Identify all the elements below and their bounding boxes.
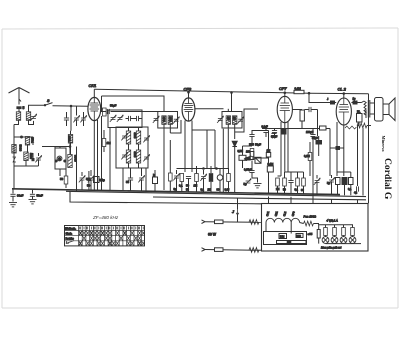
trimmer band3 [35, 155, 41, 162]
top rail anode supply [94, 89, 309, 93]
dot osc right [64, 160, 66, 162]
electrolytic dark b [282, 130, 287, 135]
resistor 0.1M horizontal top [320, 126, 327, 130]
svg-text:CL 2: CL 2 [338, 87, 347, 92]
capacitor 0.1 input [64, 118, 69, 120]
svg-text:5µ: 5µ [244, 182, 247, 186]
svg-text:Wellenb.: Wellenb. [65, 226, 76, 230]
oscillator coil frame F2 [116, 127, 148, 168]
svg-text:1000: 1000 [162, 117, 165, 123]
resistor 0.5M det [239, 155, 246, 160]
row resistor right [227, 174, 231, 182]
svg-text:100: 100 [233, 117, 236, 122]
diode detector [232, 141, 237, 146]
wire AVC horizontal [177, 168, 229, 170]
capacitor 50nF to ground [32, 189, 34, 193]
IF transformer 2 frame [222, 112, 242, 129]
wire diode down [234, 147, 236, 193]
svg-text:Drehko: Drehko [66, 237, 75, 241]
table grid [65, 226, 145, 246]
wire secondary top to switch wire [29, 105, 46, 112]
dot osc left [55, 160, 57, 162]
svg-text:RL: RL [357, 110, 361, 114]
IF2 coil primary 100 [226, 116, 230, 125]
capacitor blob left of CL2 [331, 101, 335, 104]
capacitor coupling to CL2 [309, 107, 311, 112]
wire det chain top [243, 145, 253, 147]
wire out row top y172 [337, 171, 351, 173]
svg-text:Cordial G: Cordial G [382, 158, 393, 200]
svg-text:blau grün gelb rot: blau grün gelb rot [321, 246, 341, 250]
resistor 0.1M right col [308, 153, 312, 161]
capacitor F1 100b [137, 116, 139, 121]
ground det [251, 173, 253, 179]
svg-text:5µ: 5µ [327, 181, 330, 185]
wire band2 horizontal [14, 136, 28, 138]
svg-text:100: 100 [246, 151, 251, 154]
wire CF3 top to rail [188, 92, 190, 98]
table X marks [79, 227, 145, 246]
junction dot antenna wire [70, 105, 72, 107]
coil osc lower right 5000 [136, 150, 140, 163]
svg-text:0,5M: 0,5M [238, 150, 243, 153]
resistor 0.1M af2 [267, 166, 273, 172]
svg-text:CK1: CK1 [89, 83, 97, 88]
wire coil to left rail [14, 120, 19, 124]
svg-text:50: 50 [126, 180, 130, 184]
wire CF7 grid from IF2 [235, 109, 258, 132]
svg-text:50: 50 [60, 177, 64, 181]
wire CK1 anode right [101, 111, 106, 113]
row resistor d [296, 178, 300, 186]
trimmer input A [73, 115, 79, 122]
wire left rail down to bus [13, 125, 15, 190]
trimmer under F2 [138, 175, 144, 182]
trimmer 5u out [328, 177, 334, 184]
antenna [18, 88, 20, 105]
power section outer box [262, 204, 369, 252]
capacitor 0.1uF a [263, 131, 268, 133]
lamp blau [322, 237, 329, 244]
row capacitor 50 [186, 177, 191, 179]
lamp gelb [340, 237, 347, 244]
wire switch to CK1 grid [53, 105, 89, 107]
capacitor blob right of CL2 [353, 101, 357, 104]
resistor lamp 4 [351, 228, 355, 236]
ground main [9, 203, 17, 207]
trimmer F1 b [117, 115, 123, 122]
capacitor 50pF coupling [107, 109, 109, 114]
wire zigzag mid right [345, 126, 356, 129]
svg-text:4µ: 4µ [354, 191, 357, 195]
IF1 trimmer right [173, 117, 179, 124]
wire inner box links [265, 223, 267, 232]
row resistor b [283, 178, 287, 186]
lamp G inside [57, 156, 62, 161]
mark on rail [13, 157, 17, 162]
wire IF1 top from CK1 [102, 95, 165, 97]
inner box power [264, 232, 307, 245]
wire y172 horizontal under CF7 [285, 171, 304, 173]
svg-text:60 W: 60 W [208, 233, 217, 237]
wire verticals mid band [206, 130, 208, 169]
wire band2 top link [32, 137, 34, 145]
lamp gruen [331, 237, 338, 244]
svg-text:5: 5 [23, 106, 25, 110]
blob cap row [87, 178, 90, 182]
wire CF7 top to rail [284, 93, 286, 97]
capacitor 0.1uF box row [94, 177, 100, 183]
resistor out b dark [342, 178, 347, 185]
oscillator bandfilter frame F1 [108, 110, 142, 128]
svg-text:5000: 5000 [133, 133, 137, 139]
potentiometer volume 0.1M [250, 149, 254, 157]
trimmer on secondary [30, 114, 36, 121]
pot wiper arrow [246, 157, 250, 159]
ground small [29, 200, 37, 204]
coil osc upper right 5000 [136, 131, 140, 144]
svg-text:CF3: CF3 [184, 87, 192, 92]
heating element bar [277, 241, 307, 244]
svg-text:0,1µ: 0,1µ [100, 178, 106, 182]
wire osc grid long vertical [109, 128, 111, 191]
trimmer F1 a [110, 115, 116, 122]
output transformer primary winding [364, 101, 366, 115]
resistor lamp 2 [333, 228, 337, 236]
capacitor coupling af [271, 134, 276, 136]
lamps top wire [319, 224, 354, 226]
speaker frame [375, 98, 384, 122]
wire secondary bottom [29, 120, 34, 124]
electrolytic 50uF det [249, 143, 254, 146]
wire osc coil verticals [128, 144, 130, 150]
wire osc bottom [59, 169, 61, 176]
svg-text:50pF: 50pF [110, 104, 117, 108]
wire IF1 top feeds [163, 96, 165, 112]
wire af vertical x268 [268, 135, 270, 153]
box 200 [296, 234, 303, 238]
resistor RL under OT [357, 114, 363, 123]
wire mains rail 2 [205, 249, 262, 252]
svg-text:100: 100 [226, 117, 229, 122]
tube CF7 [277, 96, 292, 122]
svg-text:1M: 1M [194, 184, 198, 188]
junction dot band2 [21, 136, 23, 138]
IF1 trimmer left [153, 116, 159, 123]
row resistor 1M [195, 174, 199, 182]
wire CF7 pins down [280, 122, 282, 176]
wire OT bottom to zigzag [365, 110, 367, 118]
coil osc 5000 [68, 155, 72, 168]
coil osc lower left 5000 [126, 150, 130, 163]
wire af horizontal y134.5 [252, 130, 269, 132]
row jack circle [217, 175, 223, 181]
wire antenna down to coil [18, 109, 20, 112]
resistor out c [349, 178, 354, 185]
row capacitor c [288, 181, 293, 183]
switch S [45, 103, 53, 106]
capacitor antenna series 5pF [16, 106, 21, 109]
svg-text:2M: 2M [276, 188, 279, 191]
box DM [279, 234, 287, 239]
svg-text:0,1M: 0,1M [245, 158, 250, 161]
capacitor F1 100 [129, 116, 131, 121]
row resistor e [302, 178, 306, 186]
svg-text:50µF: 50µF [255, 143, 261, 147]
svg-text:+05: +05 [308, 232, 313, 236]
capacitor 100pF [310, 135, 315, 137]
box M det [255, 157, 261, 163]
capacitor 4uF out [357, 186, 359, 191]
row resistor dark [209, 174, 213, 182]
wire CL2 anode right [351, 102, 361, 104]
table arrow bottom-left [66, 241, 74, 244]
svg-text:Pen 100Ω: Pen 100Ω [304, 215, 317, 219]
wire IF2 primary top [227, 109, 229, 112]
bus L1 chassis ground [12, 189, 340, 195]
trimmer 5 right of osc [79, 175, 85, 182]
padder box M [153, 177, 158, 184]
row trimmer 2 [200, 174, 206, 181]
junction osc [69, 146, 71, 148]
svg-text:0,1M: 0,1M [304, 154, 310, 158]
resistor 5000 coupling [300, 110, 304, 121]
capacitor 50 under F2 [128, 178, 133, 180]
tube CF3 [182, 98, 195, 121]
resistor RE under osc [64, 176, 68, 184]
resistor out a [336, 178, 341, 185]
svg-text:Skala: Skala [66, 231, 73, 235]
junction top rail [308, 92, 310, 94]
wire band3 links [27, 145, 29, 152]
plug pin 2 [202, 248, 206, 252]
resistor 1M af [266, 153, 270, 158]
capacitor 0.05uF det [249, 171, 254, 173]
coil band2 1501 [25, 137, 29, 146]
resistor lamp 1 [324, 228, 328, 236]
svg-text:CF7: CF7 [279, 86, 287, 91]
bus L2 [66, 191, 366, 196]
svg-text:Minerva: Minerva [381, 136, 386, 153]
wire right column x368 [368, 94, 370, 204]
IF2 trimmer left [217, 116, 223, 123]
wire CK1 top to rail [93, 89, 95, 97]
IF1 coil secondary 1000 [168, 116, 172, 125]
fuse rail 2 [215, 248, 224, 252]
wire IF2 secondary bottom [227, 129, 229, 168]
svg-text:DM: DM [280, 235, 285, 239]
wire y176 horizontal [278, 175, 282, 177]
wire to bandfilter [111, 111, 159, 113]
wire x309 drop from rail [309, 93, 326, 102]
output transformer core [367, 100, 369, 118]
wire rail drop to IF2 [231, 93, 233, 112]
trimmer osc upper [121, 133, 127, 140]
electrolytic 50uF right [316, 141, 322, 145]
resistor 0.1M on top rail [294, 90, 304, 93]
wire mains rail 1 [205, 221, 262, 224]
wire right column x357 [357, 126, 359, 187]
wire osc top [60, 147, 70, 155]
svg-text:0,05µF: 0,05µF [244, 168, 253, 172]
svg-text:30nF: 30nF [17, 194, 24, 198]
speaker driver box [383, 104, 389, 115]
IF2 coil secondary 100 [233, 116, 237, 125]
wire drop x76.5 [76, 106, 78, 116]
trimmer input B [80, 115, 86, 122]
IF2 trimmer right [237, 117, 243, 124]
wire CL2 top cap [343, 93, 345, 98]
wire osc right vertical [76, 147, 78, 192]
wire CF7 anode right [292, 109, 302, 111]
vertical feeds into power box [237, 215, 239, 222]
svg-text:5000: 5000 [19, 145, 23, 152]
tube CK1 [88, 97, 101, 120]
resistor right of CK1 [103, 108, 107, 116]
wire F2 bottom drops [122, 168, 124, 191]
lamp rot [349, 237, 356, 244]
resistor 1M mid [102, 139, 106, 147]
wire drop x71 [70, 106, 72, 131]
trimmer osc lower [121, 152, 127, 159]
wire y128.5 horizontal [262, 128, 313, 130]
component row under CF3: trimmer [173, 173, 179, 180]
IF1 coil primary 1000 [162, 116, 166, 125]
wire 50uF drop [318, 144, 320, 156]
resistor lamp 3 [342, 228, 346, 236]
svg-text:ZF=480 kHz: ZF=480 kHz [92, 215, 119, 220]
row under CF7: resistor a [276, 178, 280, 186]
coil on rail 5000 [12, 145, 16, 154]
svg-text:2M: 2M [208, 189, 211, 192]
coil band3 5000 [24, 152, 28, 161]
row resistor 0.1M [180, 174, 184, 182]
resistor zigzag Pen [304, 221, 314, 226]
wire IF1 bottoms [163, 124, 165, 190]
coil osc upper left 5000 [126, 131, 130, 144]
svg-text:0,1µF: 0,1µF [262, 126, 269, 129]
speaker horn [389, 98, 395, 121]
resistor zigzag rail 2 [249, 248, 259, 253]
resistor zigzag rail 1 [249, 220, 259, 225]
svg-text:150: 150 [287, 241, 292, 244]
svg-text:0,1M: 0,1M [295, 87, 302, 91]
row trimmer f [314, 178, 320, 185]
svg-text:50µF: 50µF [312, 136, 318, 140]
wire long vertical x101.5 [101, 116, 103, 190]
fuse rail 1 [215, 220, 224, 224]
svg-text:50nF: 50nF [37, 194, 44, 198]
electrolytic 5uF [245, 178, 251, 185]
tube CL2 [336, 98, 351, 125]
lamps bottom wire [326, 243, 353, 245]
wire CL2 cathode down [343, 125, 345, 176]
svg-text:0,05: 0,05 [225, 189, 230, 192]
oscillator box G [55, 148, 66, 169]
bus L3 [153, 197, 366, 200]
svg-text:1000: 1000 [168, 117, 171, 123]
wire CF3 anode right [195, 108, 224, 110]
wire osc top2 [54, 147, 56, 149]
trimmer 50p row [88, 175, 94, 182]
coil osc upper 1001 [68, 135, 72, 144]
svg-text:5000: 5000 [133, 152, 137, 158]
zigzag feedback under OT [357, 123, 367, 128]
coil L-ant primary [16, 112, 20, 121]
wire pen to lamps [314, 224, 319, 225]
svg-text:4 V,0,1 A: 4 V,0,1 A [327, 219, 338, 223]
wire CK1 bottom pins [93, 121, 95, 191]
bus L4 [70, 191, 262, 203]
wire CF3 pins down [184, 121, 186, 173]
resistor under IF1 [169, 173, 173, 181]
svg-text:200: 200 [297, 234, 302, 238]
svg-text:1001: 1001 [68, 136, 72, 142]
electrolytic blob band3 [32, 158, 35, 161]
resistor 105 vertical [317, 230, 320, 239]
heater chokes [266, 218, 300, 222]
wire mid horizontal y130 [192, 129, 215, 131]
coil L-ant secondary [26, 112, 30, 121]
capacitor 100 det [249, 135, 254, 137]
top rail to CL2 [309, 92, 369, 95]
plug pin 1 [202, 220, 206, 224]
capacitor 30nF to ground [12, 189, 14, 194]
capacitor 0.1uF b [272, 131, 277, 133]
svg-text:0,1: 0,1 [179, 184, 183, 188]
wire det mid right [252, 157, 269, 159]
wire speaker leads [370, 102, 375, 104]
IF transformer 1 frame [158, 112, 178, 129]
